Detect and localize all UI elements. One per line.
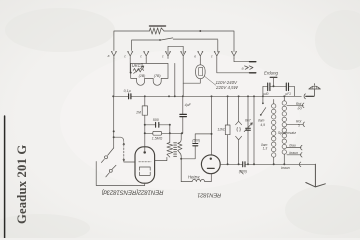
bus2 junction dots: [227, 163, 286, 165]
transformer core laminations: [174, 143, 177, 157]
anode wire to transformer: [155, 157, 167, 160]
svg-text:1,5MΩ: 1,5MΩ: [152, 136, 163, 140]
vertical V4: [253, 96, 255, 164]
tuned coil L2: [283, 96, 285, 100]
svg-text:µF1: µF1: [285, 92, 291, 96]
screen resistor R4: [227, 96, 229, 164]
svg-text:a: a: [108, 54, 110, 58]
grid leak R3: [145, 132, 183, 134]
cathode wire: [144, 183, 146, 185]
bus junction dots: [112, 95, 285, 97]
svg-text:a: a: [242, 67, 244, 71]
svg-text:667: 667: [245, 118, 251, 122]
antenna coil L1: [273, 100, 275, 104]
svg-text:Geadux 201 G: Geadux 201 G: [15, 145, 29, 224]
svg-text:blau: blau: [289, 144, 296, 148]
main bus B1: [113, 95, 301, 97]
tube V2 anode dash: [207, 167, 214, 169]
lead socket right to bus: [174, 63, 176, 96]
antenna symbol: [309, 89, 320, 96]
coupling cap C2: [145, 124, 170, 126]
svg-text:220V 4,5W: 220V 4,5W: [215, 85, 239, 90]
heater link bracket: [168, 46, 183, 53]
left margin rule: [4, 116, 6, 238]
erdung terminal: [270, 76, 277, 78]
antenna jack cup: [304, 94, 305, 99]
mechanical link dashed: [123, 145, 125, 160]
tube V2 envelope: [201, 155, 220, 174]
heater fork a: [111, 51, 117, 58]
wire W1 mains top: [114, 31, 234, 52]
tube V1 grid dashed: [139, 161, 151, 163]
svg-text:braun: braun: [289, 151, 298, 155]
heater fork d: [165, 51, 171, 58]
svg-text:(2): (2): [298, 106, 302, 110]
svg-text:4,9: 4,9: [260, 123, 265, 127]
svg-text:REN1821: REN1821: [197, 191, 221, 197]
rheostat UKC inside socket: [133, 68, 143, 72]
pointer to lamp spec: [205, 76, 216, 85]
stub wire lower to mains tap: [217, 59, 250, 73]
resistor R1 mains dropper zigzag: [149, 28, 164, 34]
trimmer C5: [247, 96, 249, 164]
svg-text:e: e: [194, 55, 196, 59]
svg-text:UKCδ: UKCδ: [132, 63, 144, 68]
tube V1 envelope: [135, 147, 155, 183]
svg-text:(500): (500): [192, 139, 200, 143]
svg-text:µ40: µ40: [263, 92, 269, 96]
ground bus B2: [220, 163, 315, 165]
jack J1: [105, 156, 108, 159]
dial lamp barretter: [196, 65, 206, 79]
svg-text:(500): (500): [239, 170, 247, 174]
heater fork h: [231, 51, 237, 58]
heater fork c: [143, 51, 149, 58]
heater fork e: [180, 51, 186, 58]
svg-text:500: 500: [153, 118, 159, 122]
series cap C6 in bus: [243, 162, 245, 167]
tube V1 grid cap dot: [143, 151, 146, 154]
switch S1 mains: [160, 38, 173, 40]
tube V1 anode bracket: [139, 167, 150, 170]
lead fork e to bus: [182, 59, 184, 97]
reaction element: [236, 96, 242, 164]
svg-text:(7B): (7B): [154, 74, 161, 78]
heater fork g: [214, 51, 220, 59]
resistor R1 tap bar: [149, 25, 165, 27]
tube socket heater box: [131, 63, 168, 85]
wire W2: [132, 39, 218, 52]
svg-text:REN1822(RENS1823d): REN1822(RENS1823d): [102, 189, 164, 196]
output transformer primary: [169, 125, 171, 143]
ground arrow: [306, 164, 326, 187]
svg-text:δam: δam: [258, 119, 265, 123]
svg-text:4µF: 4µF: [185, 103, 192, 107]
switch S2 blade: [108, 148, 114, 156]
svg-text:5: 5: [298, 123, 300, 127]
lead fork c to socket: [145, 59, 147, 64]
svg-text:1,3: 1,3: [263, 147, 268, 151]
svg-text:12kΩ: 12kΩ: [217, 128, 226, 132]
cathode lead V2: [205, 174, 212, 182]
heater fork b: [127, 51, 133, 58]
stub wire upper to mains tap: [234, 59, 249, 62]
svg-text:0,1µ: 0,1µ: [124, 89, 131, 93]
grid cap C3: [181, 134, 211, 159]
wave switch S3: [261, 96, 266, 115]
plug cups: [299, 103, 304, 167]
cathode return wire: [96, 162, 145, 186]
svg-text:Erdung: Erdung: [264, 71, 278, 76]
erdung chain vertical: [263, 86, 295, 96]
output transformer secondary: [180, 133, 181, 142]
tube V2 grid dot: [210, 158, 212, 160]
tap wires to plugs: [287, 105, 303, 155]
cap C7: [268, 83, 270, 91]
left vertical feeder: [113, 59, 115, 149]
grid resistor R2: [144, 96, 146, 106]
lead fork b to socket: [129, 59, 131, 73]
tube V1 cathode bracket: [139, 172, 150, 175]
svg-text:braun: braun: [281, 166, 290, 170]
svg-text:2M: 2M: [135, 111, 141, 115]
svg-text:Heizw.: Heizw.: [188, 174, 200, 179]
link to tube grid wire: [124, 161, 135, 163]
heater fork f: [197, 51, 203, 60]
wire to mech link: [114, 137, 124, 141]
cap C8: [286, 83, 288, 91]
jack J2: [109, 169, 112, 172]
series cap C1 on bus: [129, 94, 131, 99]
plate feed vertical: [211, 96, 213, 155]
svg-text:Spulensatz: Spulensatz: [278, 131, 296, 135]
smoothing cap C4: [182, 96, 184, 133]
svg-text:(2B): (2B): [139, 74, 146, 78]
node top junction: [199, 30, 201, 32]
heater resistor bumps: [192, 180, 205, 182]
